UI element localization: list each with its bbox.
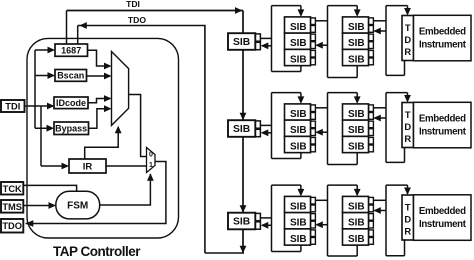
row 1: wire stack B1 pin to riser [373,20,386,22]
arrowhead: TDO into TAP controller [79,22,87,29]
wire: TCK to FSM clock [23,185,76,191]
row 3: stack B3 SIB1 [343,196,369,212]
row 3: stack B3 SIB3 [343,229,369,245]
row 1: wire drop into stack A1 [300,6,302,16]
arrowhead: Bypass to mux [104,105,112,112]
row 2: stack B2 SIB3 pins [369,137,374,144]
row 1: wire riser/return beside SIB S1 [271,6,273,72]
DR mux [112,52,129,126]
row 1: wire return into SIB S1 lower pin [262,45,272,47]
svg-text:SIB: SIB [290,141,307,152]
svg-text:Instrument: Instrument [419,219,467,230]
wire: into IR [41,165,68,167]
row 3: wire stack B3 bottom drop [356,245,358,256]
wire: bus to Bscan register [35,75,54,77]
arrowhead: Bscan to mux [104,73,112,80]
row 3: wire TDR3 bottom loop [386,255,405,257]
row 1: wire top feed to TDR1 [386,5,408,7]
arrowhead: TDI into IDcode [47,103,55,110]
row 2: wire drop into stack B2 [356,93,358,103]
wire: IR output to output mux input 1 [106,165,146,167]
svg-text:Embedded: Embedded [419,26,466,37]
row 2: wire stack B2 pin to riser [373,107,386,109]
row 3: arrowhead into stack B3 SIB1 lower pin [373,207,381,214]
row 2: arrowhead into stack B2 SIB1 lower pin [373,115,381,122]
row 2: wire stack A2 bottom drop [300,153,302,159]
row 2: wire top feed to TDR2 [386,92,408,94]
row 1: wire top feed to SIB stack B1 [328,5,358,7]
row 3: wire drop into stack B3 [356,185,358,195]
wire: IDcode output to DR mux [88,99,110,103]
row 1: wire stack B1 bottom drop [356,66,358,78]
wire: TDO return vertical riser [204,26,206,254]
row 1: wire stack A1 pin to riser [315,20,328,22]
svg-text:1687: 1687 [61,45,81,55]
wire: main scan chain vertical (TDI down through row SIBs) [242,11,244,253]
row 3: arrowhead into stack A3 SIB2 lower pin [315,221,323,228]
row 3: embedded instrument 3 [414,195,472,241]
row 1: wire top feed to SIB stack A1 [272,5,301,7]
row 1: stack B1 SIB3 [343,49,369,65]
svg-text:SIB: SIB [348,109,365,120]
row 1: arrowhead into stack A1 SIB2 lower pin [315,42,323,49]
row 3: wire drop into TDR3 [407,185,409,194]
row 2: wire drop into TDR2 [407,93,409,102]
wire: IR select to DR mux [85,127,119,159]
svg-text:TDI: TDI [5,102,20,112]
arrowhead: TDI into network chain [235,7,243,14]
wire: TDO top rail back to TAP [78,25,206,27]
TAP controller boundary [27,38,179,238]
row 1: stack A1 SIB1 [285,17,311,33]
svg-text:T: T [405,109,411,120]
row 3: wire drop into stack A3 [300,185,302,195]
row 1: stack B1 SIB1 [343,17,369,33]
row 2: TDR2 [402,103,414,148]
row 1: stack B1 SIB2 [343,33,369,49]
svg-text:SIB: SIB [348,201,365,212]
output mux 0/1 [147,148,156,173]
svg-text:SIB: SIB [348,141,365,152]
svg-text:SIB: SIB [233,217,250,228]
row 3: stack A3 SIB1 pins [311,197,316,204]
svg-text:SIB: SIB [290,201,307,212]
arrowhead: chain into row-3 SIB S3 [240,205,247,213]
svg-text:SIB: SIB [348,125,365,136]
svg-text:IR: IR [83,162,93,173]
wire: FSM select to output mux [100,174,151,205]
row 3: stack A3 SIB3 pins [311,230,316,237]
row 2: stack B2 SIB2 [343,120,369,136]
svg-text:0: 0 [149,151,153,158]
row 1: SIB S1 host pins [255,34,261,41]
svg-text:Instrument: Instrument [419,126,467,137]
row 3: wire top feed to TDR3 [386,184,408,186]
wire: Bypass output to DR mux [89,109,111,129]
register 1687 [55,44,88,56]
row 3: wire riser/return beside stack A3 [327,185,329,256]
row 1: wire riser/return beside TDR1 [385,6,387,76]
wire: TMS to FSM [23,205,54,207]
row 1: wire drop into TDR1 [407,6,409,15]
row 2: wire stack A2 bottom loop [272,158,301,160]
row 3: SIB S3 host pins [255,213,261,220]
row 3: wire stack B3 bottom loop [328,255,358,257]
arrowhead: chain into row-2 SIB S2 [240,113,247,121]
arrowhead: select into output mux [147,173,154,181]
row 3: stack B3 SIB3 pins [369,230,374,237]
arrowhead: 1687 to mux [104,63,112,70]
row 2: stack B2 SIB1 [343,104,369,120]
row 3: stack B3 SIB2 pins [369,214,374,221]
row 2: wire drop into stack A2 [300,93,302,103]
wire: Bscan output to DR mux [87,75,111,77]
row 2: arrowhead into stack B2 top [354,96,361,104]
row 3: wire stack B3 pin to riser [373,199,386,201]
register IDcode [54,97,88,109]
row 1: arrowhead into TDR1 top [404,8,411,16]
row 1: wire TDR1 bottom loop [386,74,405,76]
wire: bottom TDO return horizontal [205,252,244,254]
row 1: TDR1 [402,16,414,61]
row 2: arrowhead into TDR2 top [404,95,411,103]
port TDI [1,100,25,112]
row 2: SIB S2 [228,120,255,137]
svg-text:Embedded: Embedded [419,113,466,124]
row 2: wire TDR2 bottom drop [404,148,406,163]
arrowhead: into Bscan [48,72,56,79]
svg-text:1: 1 [149,162,153,169]
wire: output mux to TDO port [26,162,166,224]
row 2: wire return into stack B2 SIB1 lower pin [375,117,387,119]
arrowhead: IDcode to mux [104,95,112,102]
row 2: stack A2 SIB3 pins [311,137,316,144]
arrowhead: into TDO port [26,220,34,227]
row 1: wire SIB S1 host port to riser [260,37,272,39]
row 1: arrowhead into stack B1 SIB1 lower pin [373,28,381,35]
svg-text:R: R [404,226,411,237]
svg-text:SIB: SIB [348,38,365,49]
wire: TDI top rail [67,10,244,12]
row 2: stack A2 SIB2 [285,120,311,136]
svg-text:Bscan: Bscan [57,71,84,81]
svg-text:SIB: SIB [233,124,250,135]
row 2: stack A2 SIB1 [285,104,311,120]
svg-text:SIB: SIB [348,22,365,33]
svg-text:FSM: FSM [67,201,88,212]
row 3: wire return into SIB S3 lower pin [262,224,272,226]
row 1: wire TDR1 bottom drop [404,61,406,76]
row 3: stack B3 SIB2 [343,213,369,229]
svg-text:Embedded: Embedded [419,206,466,217]
row 1: stack A1 SIB2 pins [311,34,316,41]
row 1: stack B1 SIB2 pins [369,34,374,41]
row 3: arrowhead into TDR3 top [404,188,411,196]
svg-text:IDcode: IDcode [56,98,86,108]
row 2: wire SIB S2 host port to riser [260,124,272,126]
row 1: stack B1 SIB1 pins [369,18,374,25]
row 1: wire stack A1 bottom loop [272,71,301,73]
row 2: stack B2 SIB2 pins [369,121,374,128]
svg-text:SIB: SIB [290,125,307,136]
row 3: wire stack A3 pin to riser [315,199,328,201]
row 3: arrowhead into stack A3 top [298,189,305,197]
wire: TDO drop into 1687 register [77,26,79,46]
row 2: wire top feed to SIB stack B2 [328,92,358,94]
port TCK [1,182,23,195]
row 3: wire riser/return beside TDR3 [385,185,387,256]
port TDO [1,219,23,233]
svg-text:R: R [404,46,411,57]
svg-text:TDO: TDO [2,221,22,231]
row 3: wire top feed to SIB stack B3 [328,184,358,186]
svg-text:SIB: SIB [290,22,307,33]
wire: bus to Bypass register [35,127,53,129]
row 2: arrowhead into stack A2 top [298,96,305,104]
row 3: wire TDR3 bottom drop [404,240,406,256]
svg-text:SIB: SIB [290,38,307,49]
row 3: arrowhead into stack B3 top [354,189,361,197]
svg-text:SIB: SIB [348,234,365,245]
row 1: arrowhead into stack B1 top [354,9,361,17]
row 3: wire top feed to SIB stack A3 [272,184,301,186]
arrowhead: select into DR mux [115,126,122,134]
svg-text:TDO: TDO [128,15,146,25]
wire: TDI port to IDcode register [25,105,54,107]
row 2: wire top feed to SIB stack A2 [272,92,301,94]
svg-text:D: D [404,214,411,225]
row 2: arrowhead into stack A2 SIB2 lower pin [315,129,323,136]
svg-text:TCK: TCK [3,184,22,194]
register IR [69,159,106,173]
row 3: wire stack A3 bottom loop [272,251,301,253]
row 3: TDR3 [402,195,414,240]
row 2: wire stack A2 pin to riser [315,107,328,109]
svg-text:SIB: SIB [348,54,365,65]
row 1: stack A1 SIB2 [285,33,311,49]
row 2: wire stack B2 bottom drop [356,153,358,165]
row 2: wire riser/return beside TDR2 [385,93,387,163]
row 1: wire riser/return beside stack A1 [327,6,329,78]
row 1: wire stack A1 bottom drop [300,66,302,72]
row 1: stack A1 SIB3 pins [311,50,316,57]
svg-text:T: T [405,22,411,33]
wire: DR mux output to output mux input 0 [129,95,146,157]
FSM state machine [56,191,100,219]
arrowhead: into 1687 [48,47,56,54]
arrowhead: into Bypass [47,125,55,132]
row 3: arrowhead into SIB S3 lower pin [261,222,269,229]
svg-text:Bypass: Bypass [55,123,87,133]
wire: bus to 1687 register [35,49,54,51]
row 3: stack A3 SIB3 [285,229,311,245]
row 1: SIB S1 [228,33,255,50]
svg-text:R: R [404,133,411,144]
row 2: arrowhead into SIB S2 lower pin [261,129,269,136]
register Bypass [54,122,89,135]
svg-text:SIB: SIB [290,109,307,120]
row 1: arrowhead into SIB S1 lower pin [261,42,269,49]
svg-text:Instrument: Instrument [419,39,467,50]
row 1: wire return into stack B1 SIB1 lower pin [375,30,387,32]
row 3: stack A3 SIB2 [285,213,311,229]
svg-text:TMS: TMS [2,202,22,212]
row 2: wire stack B2 bottom loop [328,164,358,166]
row 2: SIB S2 host pins [255,121,261,128]
svg-text:T: T [405,202,411,213]
port TMS [1,200,23,213]
row 2: stack A2 SIB3 [285,136,311,152]
row 1: arrowhead into stack A1 top [298,9,305,17]
row 1: wire stack B1 bottom loop [328,77,358,79]
row 2: stack A2 SIB2 pins [311,121,316,128]
wire: TDI vertical bus to registers [34,50,36,128]
svg-text:SIB: SIB [290,218,307,229]
row 2: wire return into SIB S2 lower pin [262,132,272,134]
arrowhead: TMS into FSM [49,202,57,209]
svg-text:TAP Controller: TAP Controller [53,244,141,259]
row 1: stack A1 SIB1 pins [311,18,316,25]
row 2: wire riser/return beside SIB S2 [271,93,273,159]
wire: 1687 output to DR mux [88,50,111,66]
row 3: stack A3 SIB2 pins [311,214,316,221]
row 3: wire return into stack B3 SIB1 lower pin [375,210,387,212]
row 1: wire drop into stack B1 [356,6,358,16]
row 1: stack B1 SIB3 pins [369,50,374,57]
row 2: wire TDR2 bottom loop [386,161,405,163]
row 1: wire return into stack A1 SIB2 lower pin [317,44,328,46]
svg-text:TDI: TDI [126,0,140,9]
svg-text:D: D [404,121,411,132]
row 2: wire riser/return beside stack A2 [327,93,329,165]
svg-text:SIB: SIB [290,234,307,245]
svg-text:SIB: SIB [233,37,250,48]
row 2: stack A2 SIB1 pins [311,105,316,112]
row 3: wire riser/return beside SIB S3 [271,185,273,251]
row 2: stack B2 SIB1 pins [369,105,374,112]
row 3: wire stack A3 bottom drop [300,245,302,251]
wire: TDI from 1687 register up to top rail [66,11,68,46]
row 3: wire SIB S3 host port to riser [260,217,272,219]
svg-text:D: D [404,34,411,45]
row 1: embedded instrument 1 [414,15,472,61]
row 2: embedded instrument 2 [414,102,472,148]
svg-text:SIB: SIB [348,218,365,229]
arrowhead: chain into bottom TDO return [240,246,247,254]
register Bscan [55,70,87,82]
row 3: SIB S3 [228,213,255,230]
row 3: stack A3 SIB1 [285,196,311,212]
wire: TDI branch down to IR [40,106,42,166]
svg-text:SIB: SIB [290,54,307,65]
row 1: stack A1 SIB3 [285,49,311,65]
arrowhead: into IR [62,163,70,170]
row 2: wire return into stack A2 SIB2 lower pin [317,131,328,133]
row 2: stack B2 SIB3 [343,136,369,152]
row 3: wire return into stack A3 SIB2 lower pin [317,224,328,226]
row 3: stack B3 SIB1 pins [369,197,374,204]
